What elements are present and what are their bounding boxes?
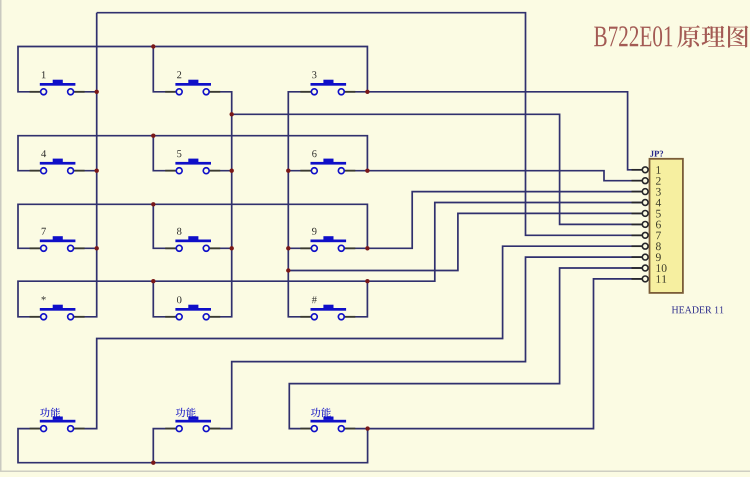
junction J8 at (288,171)	[286, 169, 290, 173]
pushbutton S7 key "7"	[30, 236, 85, 251]
wire net F3L to pin 10	[289, 268, 642, 429]
junction J11 at (97,248)	[95, 246, 99, 250]
junction J10 at (153,204)	[151, 202, 155, 206]
junction J17 at (367,281)	[365, 279, 369, 283]
pushbutton S6 key "6"	[300, 159, 355, 174]
pin 11 of JP?	[632, 275, 667, 283]
wire net ROW3 to pin 3	[18, 192, 642, 249]
wire net FCOM to pin 11	[18, 279, 642, 463]
wire net ROW2 to pin 2	[18, 136, 642, 181]
junction J18 at (153,463)	[151, 461, 155, 465]
wire net F2R to pin 9	[209, 257, 642, 429]
wire net ROW1 to pin 1	[18, 47, 642, 170]
pin 1 of JP?	[632, 166, 661, 174]
wire net ROW4 to pin 4	[18, 203, 642, 317]
pushbutton S1 key "1"	[30, 80, 85, 95]
pushbutton S2 key "2"	[165, 80, 220, 95]
wire net F1R to pin 8	[74, 246, 643, 428]
junction J15 at (288,270)	[286, 268, 290, 272]
junction J12 at (232,248)	[230, 246, 234, 250]
connector JP? HEADER 11 body	[650, 159, 683, 293]
wire net COL2 to pin 6	[209, 92, 642, 317]
junction J16 at (153,281)	[151, 279, 155, 283]
wire net COL1 to pin 7	[74, 13, 643, 317]
junction J4 at (232,114)	[230, 112, 234, 116]
pushbutton S4 key "4"	[30, 159, 85, 174]
junction J19 at (368,429)	[365, 426, 369, 430]
pin 10 of JP?	[632, 264, 667, 272]
pushbutton S3 key "3"	[300, 80, 355, 95]
pin 9 of JP?	[632, 253, 661, 261]
junction J3 at (367,92)	[365, 90, 369, 94]
junction J2 at (97,92)	[95, 90, 99, 94]
pushbutton S5 key "5"	[165, 159, 220, 174]
pin 3 of JP?	[632, 188, 661, 196]
junction J5 at (153,136)	[151, 134, 155, 138]
junction J13 at (288,248)	[286, 246, 290, 250]
pushbutton S9 key "9"	[300, 236, 355, 251]
pushbutton S12 key "#"	[300, 305, 355, 320]
pushbutton S10 key "*"	[30, 305, 85, 320]
junction J7 at (232,171)	[230, 169, 234, 173]
pushbutton S8 key "8"	[165, 236, 220, 251]
pin 6 of JP?	[632, 221, 661, 229]
label JP?	[650, 151, 663, 157]
pin 2 of JP?	[632, 177, 661, 185]
pushbutton S11 key "0"	[165, 305, 220, 320]
junction J1 at (153,46)	[151, 44, 155, 48]
pin 4 of JP?	[632, 199, 662, 207]
junction J9 at (367,171)	[365, 169, 369, 173]
pushbutton S15 function key	[300, 417, 355, 432]
pin 8 of JP?	[632, 242, 661, 250]
junction J6 at (97,171)	[95, 169, 99, 173]
screenshot left edge artifact	[0, 0, 2, 472]
pin 7 of JP?	[632, 232, 661, 240]
title text B722E01 schematic	[594, 26, 672, 46]
pushbutton S14 function key	[165, 417, 220, 432]
junction J14 at (367,248)	[365, 246, 369, 250]
pin 5 of JP?	[632, 210, 661, 218]
screenshot bottom edge artifact	[0, 471, 750, 473]
pushbutton S13 function key	[30, 417, 85, 432]
label HEADER 11	[672, 306, 724, 313]
wire net COL3 to pin 5	[288, 92, 642, 317]
